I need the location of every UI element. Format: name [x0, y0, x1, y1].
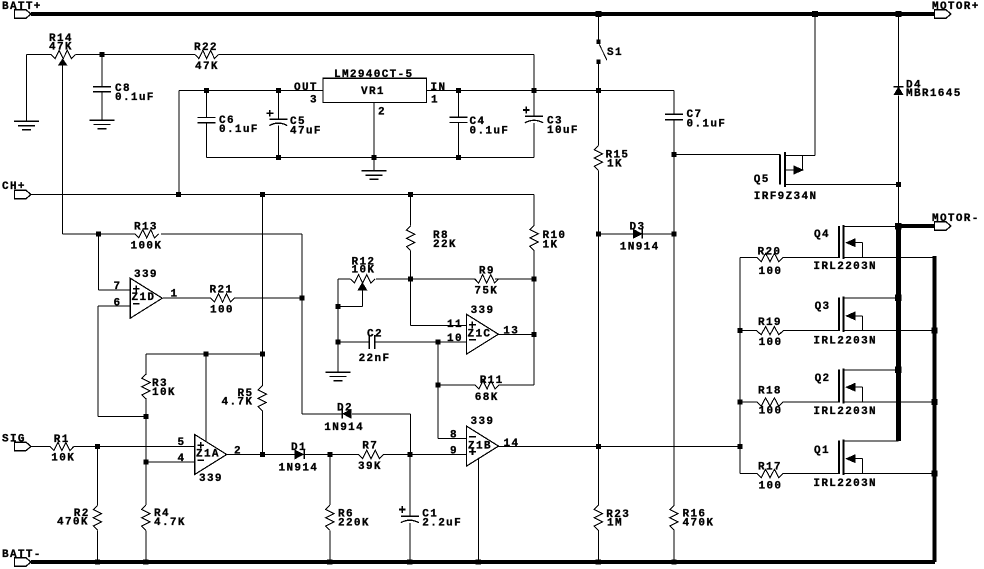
svg-text:IRL2203N: IRL2203N [813, 478, 877, 490]
svg-text:R17: R17 [758, 462, 782, 474]
svg-text:D2: D2 [337, 403, 353, 415]
svg-text:1K: 1K [607, 159, 623, 171]
svg-text:10: 10 [447, 333, 463, 345]
svg-text:Z1C: Z1C [468, 328, 492, 340]
svg-text:8: 8 [450, 430, 458, 442]
svg-text:R9: R9 [479, 266, 495, 278]
svg-text:470K: 470K [683, 518, 715, 530]
svg-text:R22: R22 [194, 42, 218, 54]
svg-text:Q1: Q1 [814, 445, 830, 457]
svg-text:47K: 47K [195, 61, 219, 73]
svg-text:100K: 100K [131, 241, 163, 253]
svg-text:6: 6 [114, 298, 122, 310]
svg-text:Z1A: Z1A [196, 449, 220, 461]
svg-text:100: 100 [210, 305, 234, 317]
svg-text:2: 2 [378, 107, 386, 119]
svg-text:75K: 75K [474, 286, 498, 298]
svg-text:14: 14 [504, 438, 520, 450]
svg-text:D3: D3 [630, 222, 646, 234]
svg-text:Z1D: Z1D [132, 292, 156, 304]
svg-text:IRL2203N: IRL2203N [813, 336, 877, 348]
svg-text:9: 9 [450, 446, 458, 458]
svg-text:R1: R1 [54, 434, 70, 446]
svg-text:10uF: 10uF [547, 125, 579, 137]
svg-text:1N914: 1N914 [620, 242, 660, 254]
svg-text:R7: R7 [362, 441, 378, 453]
svg-text:339: 339 [134, 269, 158, 281]
svg-text:1N914: 1N914 [279, 463, 319, 475]
svg-text:MOTOR-: MOTOR- [932, 213, 980, 225]
svg-text:LM2940CT-5: LM2940CT-5 [334, 69, 414, 81]
svg-text:11: 11 [447, 319, 463, 331]
svg-text:100: 100 [759, 266, 783, 278]
svg-text:C2: C2 [367, 328, 383, 340]
svg-text:1K: 1K [543, 240, 559, 252]
svg-text:3: 3 [310, 95, 318, 107]
svg-text:CH+: CH+ [2, 181, 26, 193]
svg-text:BATT+: BATT+ [2, 1, 42, 13]
svg-text:IRF9Z34N: IRF9Z34N [754, 191, 818, 203]
svg-text:R19: R19 [758, 317, 782, 329]
svg-text:13: 13 [503, 325, 519, 337]
svg-text:7: 7 [114, 281, 122, 293]
svg-text:5: 5 [178, 437, 186, 449]
svg-text:VR1: VR1 [361, 86, 385, 98]
svg-text:22K: 22K [433, 239, 457, 251]
svg-text:100: 100 [759, 337, 783, 349]
svg-text:Z1B: Z1B [468, 441, 492, 453]
svg-text:220K: 220K [338, 518, 370, 530]
svg-text:1: 1 [171, 289, 179, 301]
svg-text:1M: 1M [607, 518, 623, 530]
svg-text:100: 100 [759, 406, 783, 418]
svg-text:IRL2203N: IRL2203N [813, 261, 877, 273]
svg-text:47K: 47K [49, 42, 73, 54]
svg-text:0.1uF: 0.1uF [115, 92, 155, 104]
svg-text:10K: 10K [152, 387, 176, 399]
svg-text:R20: R20 [758, 247, 782, 259]
svg-text:D1: D1 [291, 442, 307, 454]
svg-text:Q3: Q3 [815, 301, 831, 313]
svg-text:MBR1645: MBR1645 [906, 88, 962, 100]
svg-text:SIG: SIG [2, 434, 26, 446]
svg-text:IN: IN [431, 82, 447, 94]
svg-text:S1: S1 [607, 47, 623, 59]
svg-text:BATT-: BATT- [2, 549, 42, 561]
svg-text:68K: 68K [475, 392, 499, 404]
svg-text:Q2: Q2 [815, 373, 831, 385]
svg-text:IRL2203N: IRL2203N [813, 406, 877, 418]
svg-text:2.2uF: 2.2uF [422, 518, 462, 530]
svg-text:339: 339 [199, 473, 223, 485]
svg-text:1: 1 [431, 95, 439, 107]
svg-text:4: 4 [178, 453, 186, 465]
svg-text:4.7K: 4.7K [154, 517, 186, 529]
svg-text:100: 100 [759, 481, 783, 493]
svg-text:OUT: OUT [294, 82, 318, 94]
svg-text:R11: R11 [480, 375, 504, 387]
svg-text:Q5: Q5 [754, 174, 770, 186]
svg-text:R13: R13 [134, 222, 158, 234]
svg-text:339: 339 [471, 416, 495, 428]
svg-text:0.1uF: 0.1uF [687, 119, 727, 131]
svg-text:R18: R18 [758, 386, 782, 398]
svg-text:1N914: 1N914 [324, 422, 364, 434]
svg-text:39K: 39K [358, 461, 382, 473]
svg-text:2: 2 [234, 446, 242, 458]
svg-text:0.1uF: 0.1uF [219, 124, 259, 136]
svg-text:470K: 470K [57, 517, 89, 529]
svg-text:Q4: Q4 [814, 229, 830, 241]
svg-text:0.1uF: 0.1uF [470, 126, 510, 138]
svg-text:10K: 10K [352, 265, 376, 277]
svg-text:R21: R21 [210, 285, 234, 297]
svg-text:22nF: 22nF [359, 353, 391, 365]
svg-text:10K: 10K [51, 453, 75, 465]
svg-text:4.7K: 4.7K [222, 397, 254, 409]
svg-text:339: 339 [471, 305, 495, 317]
svg-text:MOTOR+: MOTOR+ [932, 1, 980, 13]
svg-text:47uF: 47uF [290, 126, 322, 138]
